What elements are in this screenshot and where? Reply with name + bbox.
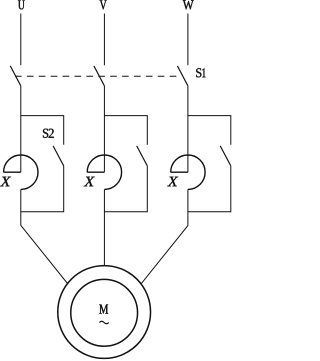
wire V middle bbox=[103, 86, 105, 172]
switch S1 pole 2 blade bbox=[94, 66, 105, 86]
element X phase 1 (winding symbol arc) bbox=[4, 155, 38, 189]
wire U bottom to motor bbox=[21, 189, 104, 329]
element X phase 2 (winding symbol arc) bbox=[87, 155, 121, 189]
wire V top bbox=[103, 14, 105, 66]
wire U top bbox=[20, 14, 22, 66]
motor M outer circle bbox=[58, 266, 151, 359]
wire W top bbox=[187, 14, 189, 66]
switch S1 label bbox=[196, 68, 205, 77]
wire U middle bbox=[20, 86, 22, 172]
switch S2 pole 2 branch wiring bbox=[104, 116, 147, 212]
element X phase 3 label bbox=[167, 177, 178, 187]
wire W bottom to motor bbox=[105, 189, 188, 329]
motor M label bbox=[99, 305, 108, 314]
element X phase 2 label bbox=[84, 177, 95, 187]
node U label bbox=[18, 0, 25, 9]
switch S1 pole 1 blade bbox=[10, 66, 20, 86]
wire W middle bbox=[187, 86, 189, 172]
switch S1 mechanical linkage (dashed) bbox=[15, 75, 181, 77]
motor M inner circle bbox=[71, 279, 138, 346]
switch S2 pole 1 branch wiring bbox=[21, 116, 64, 212]
node W label bbox=[183, 0, 194, 9]
wire V bottom to motor bbox=[103, 189, 105, 280]
switch S2 pole 2 blade bbox=[137, 146, 148, 166]
switch S2 pole 3 blade bbox=[220, 146, 231, 166]
switch S1 pole 3 blade bbox=[177, 66, 188, 86]
element X phase 1 label bbox=[0, 177, 11, 187]
switch S2 label bbox=[43, 129, 54, 138]
node V label bbox=[100, 0, 107, 9]
motor AC tilde symbol bbox=[99, 321, 108, 324]
switch S2 pole 3 branch wiring bbox=[188, 116, 231, 212]
element X phase 3 (winding symbol arc) bbox=[171, 155, 205, 189]
switch S2 pole 1 blade bbox=[53, 146, 64, 166]
